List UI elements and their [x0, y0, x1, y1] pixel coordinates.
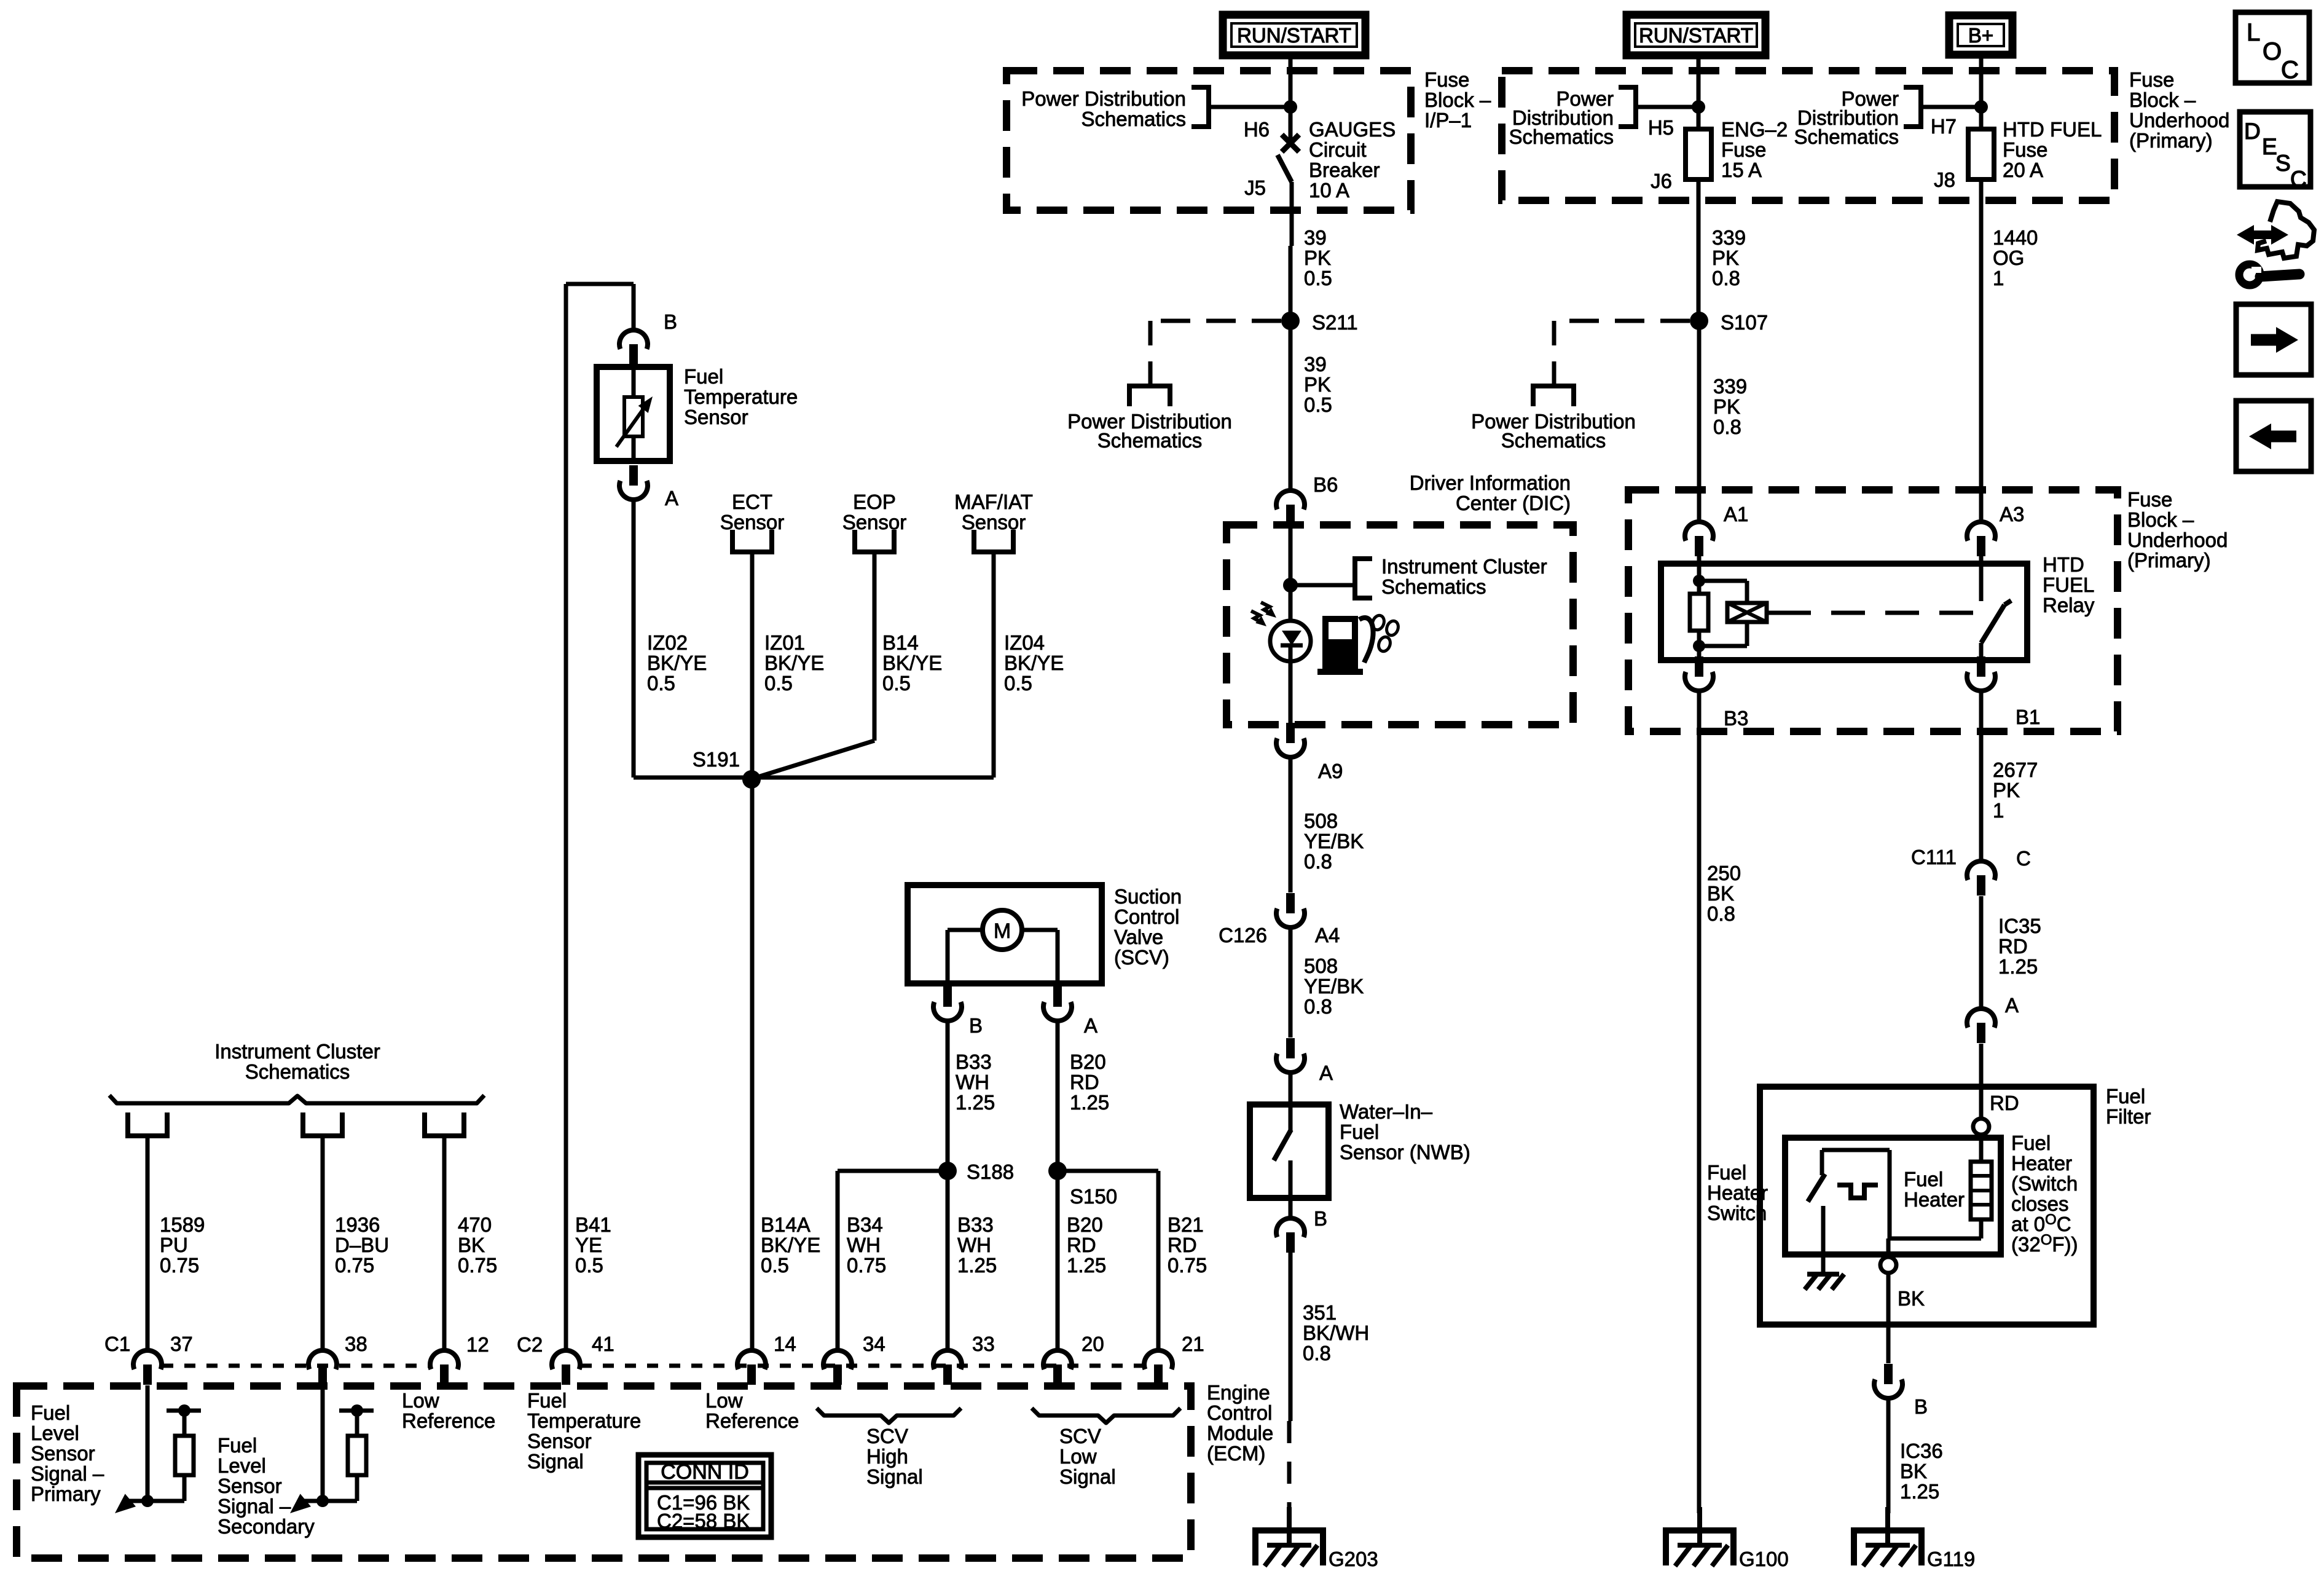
- svg-text:0.8: 0.8: [1712, 267, 1740, 289]
- svg-text:I/P–1: I/P–1: [1424, 109, 1472, 132]
- svg-text:PK: PK: [1304, 246, 1331, 269]
- svg-text:Schematics: Schematics: [1097, 429, 1203, 452]
- svg-text:37: 37: [170, 1333, 193, 1355]
- svg-text:Signal –: Signal –: [31, 1462, 104, 1485]
- svg-text:H5: H5: [1648, 116, 1674, 139]
- svg-text:IC36: IC36: [1900, 1439, 1943, 1462]
- svg-text:ENG–2: ENG–2: [1721, 118, 1788, 141]
- svg-text:B20: B20: [1067, 1213, 1103, 1236]
- svg-text:BK: BK: [1707, 882, 1734, 905]
- svg-text:Level: Level: [31, 1422, 79, 1444]
- svg-text:508: 508: [1304, 955, 1338, 977]
- svg-text:470: 470: [458, 1213, 492, 1236]
- svg-text:(Switch: (Switch: [2011, 1172, 2078, 1195]
- svg-text:O: O: [2263, 38, 2282, 65]
- svg-text:0.8: 0.8: [1713, 415, 1741, 438]
- svg-text:0.5: 0.5: [882, 672, 911, 695]
- svg-text:HTD FUEL: HTD FUEL: [2003, 118, 2102, 141]
- svg-text:Fuel: Fuel: [218, 1434, 257, 1457]
- svg-text:B14A: B14A: [761, 1213, 811, 1236]
- svg-text:Fuel: Fuel: [1904, 1168, 1943, 1191]
- svg-text:Instrument Cluster: Instrument Cluster: [1381, 555, 1547, 578]
- svg-text:RD: RD: [1168, 1234, 1197, 1256]
- svg-text:41: 41: [592, 1333, 614, 1355]
- svg-text:G203: G203: [1329, 1548, 1378, 1570]
- svg-text:Fuel: Fuel: [684, 365, 723, 388]
- svg-text:Block –: Block –: [1424, 89, 1491, 111]
- svg-text:BK: BK: [1898, 1287, 1925, 1310]
- svg-text:339: 339: [1713, 375, 1747, 398]
- svg-text:Filter: Filter: [2106, 1105, 2151, 1128]
- svg-text:WH: WH: [957, 1234, 991, 1256]
- svg-text:Switch: Switch: [1707, 1202, 1767, 1224]
- svg-text:0.5: 0.5: [761, 1254, 789, 1277]
- svg-text:C: C: [2290, 167, 2307, 192]
- svg-text:MAF/IAT: MAF/IAT: [954, 490, 1033, 513]
- svg-text:2677: 2677: [1993, 758, 2038, 781]
- svg-text:0.75: 0.75: [847, 1254, 886, 1277]
- svg-text:Fuse: Fuse: [2127, 488, 2172, 511]
- svg-text:1.25: 1.25: [1900, 1480, 1939, 1503]
- svg-text:B+: B+: [1968, 24, 1993, 47]
- svg-text:IZ04: IZ04: [1004, 631, 1045, 654]
- svg-text:Fuel: Fuel: [2106, 1085, 2145, 1108]
- svg-text:Fuse: Fuse: [2003, 138, 2047, 161]
- svg-text:38: 38: [345, 1333, 367, 1355]
- svg-text:20 A: 20 A: [2003, 159, 2043, 181]
- svg-text:IC35: IC35: [1998, 915, 2041, 937]
- svg-text:B33: B33: [957, 1213, 994, 1236]
- svg-text:1.25: 1.25: [1070, 1091, 1109, 1114]
- svg-text:G100: G100: [1739, 1548, 1789, 1570]
- svg-text:339: 339: [1712, 226, 1746, 249]
- svg-text:10 A: 10 A: [1309, 179, 1349, 202]
- svg-text:YE/BK: YE/BK: [1304, 830, 1364, 853]
- svg-text:YE: YE: [575, 1234, 602, 1256]
- svg-text:Schematics: Schematics: [1081, 108, 1186, 130]
- svg-text:(ECM): (ECM): [1207, 1442, 1265, 1465]
- svg-text:BK: BK: [458, 1234, 485, 1256]
- svg-text:0.5: 0.5: [1304, 393, 1332, 416]
- svg-text:0.8: 0.8: [1303, 1342, 1331, 1364]
- svg-text:A: A: [1084, 1014, 1097, 1037]
- svg-text:Fuel: Fuel: [527, 1389, 567, 1412]
- svg-text:Fuel: Fuel: [1340, 1120, 1379, 1143]
- svg-text:0.5: 0.5: [764, 672, 793, 695]
- svg-text:RD: RD: [1998, 935, 2028, 958]
- svg-text:Driver Information: Driver Information: [1410, 471, 1571, 494]
- svg-text:J6: J6: [1651, 170, 1672, 192]
- svg-text:0.8: 0.8: [1707, 902, 1735, 925]
- svg-text:SCV: SCV: [866, 1425, 908, 1447]
- svg-text:250: 250: [1707, 862, 1741, 884]
- svg-text:WH: WH: [847, 1234, 881, 1256]
- svg-text:Circuit: Circuit: [1309, 138, 1367, 161]
- svg-text:Level: Level: [218, 1454, 266, 1477]
- svg-text:High: High: [866, 1445, 908, 1468]
- svg-text:Valve: Valve: [1114, 926, 1163, 948]
- svg-text:1589: 1589: [160, 1213, 205, 1236]
- svg-text:Breaker: Breaker: [1309, 159, 1380, 181]
- svg-text:0.75: 0.75: [1168, 1254, 1207, 1277]
- svg-text:39: 39: [1304, 226, 1327, 249]
- svg-text:GAUGES: GAUGES: [1309, 118, 1396, 141]
- svg-text:Fuse: Fuse: [2129, 68, 2174, 91]
- svg-text:RD: RD: [1070, 1071, 1099, 1093]
- svg-text:H6: H6: [1244, 118, 1270, 141]
- svg-text:B41: B41: [575, 1213, 611, 1236]
- svg-text:Engine: Engine: [1207, 1381, 1270, 1404]
- svg-text:S188: S188: [967, 1160, 1014, 1183]
- svg-text:S107: S107: [1721, 311, 1768, 334]
- svg-text:Sensor: Sensor: [684, 406, 748, 428]
- svg-text:B14: B14: [882, 631, 919, 654]
- svg-text:IZ01: IZ01: [764, 631, 805, 654]
- svg-text:D: D: [2244, 119, 2261, 144]
- svg-text:RUN/START: RUN/START: [1639, 24, 1753, 47]
- svg-text:Reference: Reference: [705, 1409, 799, 1432]
- svg-text:Sensor: Sensor: [720, 511, 785, 534]
- svg-text:0.5: 0.5: [1004, 672, 1032, 695]
- svg-text:Schematics: Schematics: [1509, 125, 1614, 148]
- svg-text:Reference: Reference: [402, 1409, 495, 1432]
- svg-text:15 A: 15 A: [1721, 159, 1762, 181]
- svg-text:Fuel: Fuel: [31, 1401, 70, 1424]
- svg-text:Relay: Relay: [2043, 594, 2095, 616]
- svg-text:FUEL: FUEL: [2043, 573, 2094, 596]
- svg-text:Sensor: Sensor: [218, 1475, 282, 1497]
- svg-text:1: 1: [1993, 267, 2004, 289]
- svg-text:0.5: 0.5: [575, 1254, 603, 1277]
- svg-text:12: 12: [466, 1333, 489, 1356]
- svg-text:B1: B1: [2016, 706, 2040, 728]
- svg-text:PK: PK: [1713, 395, 1740, 418]
- svg-text:0.8: 0.8: [1304, 850, 1332, 873]
- svg-text:1936: 1936: [335, 1213, 380, 1236]
- svg-text:0.75: 0.75: [458, 1254, 497, 1277]
- svg-text:Instrument Cluster: Instrument Cluster: [214, 1040, 380, 1063]
- svg-text:Signal: Signal: [866, 1465, 923, 1488]
- svg-text:RUN/START: RUN/START: [1237, 24, 1351, 47]
- svg-text:Power Distribution: Power Distribution: [1021, 87, 1186, 110]
- svg-text:BK/YE: BK/YE: [1004, 652, 1064, 674]
- svg-text:Block –: Block –: [2129, 89, 2196, 111]
- svg-text:BK/WH: BK/WH: [1303, 1321, 1369, 1344]
- svg-text:B: B: [1314, 1207, 1327, 1230]
- svg-text:closes: closes: [2011, 1192, 2069, 1215]
- svg-text:Secondary: Secondary: [218, 1515, 315, 1538]
- svg-text:33: 33: [972, 1333, 995, 1355]
- svg-text:Sensor (NWB): Sensor (NWB): [1340, 1141, 1470, 1164]
- svg-text:S150: S150: [1070, 1185, 1117, 1208]
- svg-text:Sensor: Sensor: [962, 511, 1026, 534]
- svg-text:C1: C1: [104, 1333, 130, 1355]
- svg-text:Center (DIC): Center (DIC): [1456, 492, 1571, 514]
- svg-text:WH: WH: [956, 1071, 989, 1093]
- svg-text:EOP: EOP: [853, 490, 896, 513]
- svg-text:351: 351: [1303, 1301, 1337, 1324]
- svg-text:Schematics: Schematics: [1794, 125, 1899, 148]
- svg-text:SCV: SCV: [1059, 1425, 1101, 1447]
- svg-text:G119: G119: [1927, 1548, 1975, 1570]
- svg-text:HTD: HTD: [2043, 553, 2084, 576]
- svg-text:Heater: Heater: [2011, 1152, 2072, 1175]
- svg-text:C: C: [2016, 847, 2031, 870]
- svg-text:Underhood: Underhood: [2127, 529, 2228, 551]
- svg-text:B33: B33: [956, 1050, 992, 1073]
- svg-text:S: S: [2275, 151, 2291, 176]
- svg-text:Sensor: Sensor: [31, 1442, 95, 1465]
- svg-text:B: B: [1914, 1395, 1928, 1418]
- svg-text:D–BU: D–BU: [335, 1234, 389, 1256]
- svg-text:BK/YE: BK/YE: [761, 1234, 820, 1256]
- svg-text:B20: B20: [1070, 1050, 1106, 1073]
- svg-text:B6: B6: [1313, 473, 1338, 496]
- svg-text:20: 20: [1082, 1333, 1104, 1355]
- svg-text:1.25: 1.25: [956, 1091, 995, 1114]
- svg-text:Suction: Suction: [1114, 885, 1182, 908]
- svg-text:C126: C126: [1219, 924, 1267, 947]
- svg-text:B3: B3: [1724, 707, 1748, 730]
- svg-text:BK/YE: BK/YE: [882, 652, 942, 674]
- svg-text:34: 34: [863, 1333, 885, 1355]
- svg-text:Schematics: Schematics: [1381, 575, 1486, 598]
- svg-text:Underhood: Underhood: [2129, 109, 2229, 132]
- svg-text:Primary: Primary: [31, 1483, 101, 1505]
- svg-text:1.25: 1.25: [1067, 1254, 1106, 1277]
- svg-text:B34: B34: [847, 1213, 883, 1236]
- svg-text:Block –: Block –: [2127, 508, 2194, 531]
- svg-text:1.25: 1.25: [1998, 955, 2038, 978]
- svg-text:C111: C111: [1911, 846, 1957, 868]
- svg-text:BK/YE: BK/YE: [647, 652, 707, 674]
- svg-text:M: M: [994, 919, 1011, 943]
- svg-text:39: 39: [1304, 353, 1327, 376]
- svg-text:(Primary): (Primary): [2129, 129, 2213, 152]
- svg-text:Heater: Heater: [1707, 1181, 1768, 1204]
- svg-text:0.5: 0.5: [647, 672, 675, 695]
- svg-text:Fuse: Fuse: [1424, 68, 1469, 91]
- svg-text:BK/YE: BK/YE: [764, 652, 824, 674]
- svg-text:Control: Control: [1114, 905, 1179, 928]
- svg-text:J5: J5: [1244, 176, 1266, 199]
- svg-text:508: 508: [1304, 809, 1338, 832]
- svg-text:Heater: Heater: [1904, 1188, 1965, 1211]
- svg-text:CONN ID: CONN ID: [661, 1460, 749, 1484]
- svg-text:Module: Module: [1207, 1422, 1273, 1444]
- svg-text:ECT: ECT: [732, 490, 772, 513]
- svg-text:Schematics: Schematics: [1501, 429, 1606, 452]
- svg-text:1440: 1440: [1993, 226, 2038, 249]
- svg-text:0.75: 0.75: [160, 1254, 199, 1277]
- svg-text:BK: BK: [1900, 1460, 1927, 1483]
- svg-text:Low: Low: [705, 1389, 743, 1412]
- svg-text:Fuse: Fuse: [1721, 138, 1766, 161]
- svg-text:Low: Low: [402, 1389, 439, 1412]
- svg-text:B: B: [969, 1014, 983, 1037]
- svg-text:J8: J8: [1934, 168, 1955, 191]
- svg-text:Schematics: Schematics: [245, 1060, 350, 1083]
- svg-text:14: 14: [774, 1333, 796, 1355]
- svg-text:OG: OG: [1993, 246, 2024, 269]
- svg-text:0.5: 0.5: [1304, 267, 1332, 289]
- svg-text:Fuel: Fuel: [1707, 1161, 1746, 1184]
- svg-text:B21: B21: [1168, 1213, 1204, 1236]
- svg-text:PK: PK: [1993, 779, 2020, 801]
- svg-text:C2=58 BK: C2=58 BK: [657, 1510, 750, 1532]
- svg-text:IZ02: IZ02: [647, 631, 688, 654]
- svg-text:S211: S211: [1312, 311, 1358, 334]
- svg-text:E: E: [2262, 134, 2277, 159]
- svg-text:RD: RD: [1067, 1234, 1096, 1256]
- svg-text:A: A: [665, 487, 678, 510]
- svg-text:PU: PU: [160, 1234, 188, 1256]
- svg-text:A4: A4: [1315, 924, 1340, 947]
- svg-text:1.25: 1.25: [957, 1254, 997, 1277]
- svg-text:A: A: [1319, 1061, 1333, 1084]
- svg-text:H7: H7: [1931, 115, 1957, 138]
- svg-text:PK: PK: [1712, 246, 1739, 269]
- svg-text:Sensor: Sensor: [527, 1430, 592, 1452]
- svg-text:Fuel: Fuel: [2011, 1132, 2051, 1154]
- svg-text:0.75: 0.75: [335, 1254, 374, 1277]
- svg-text:YE/BK: YE/BK: [1304, 975, 1364, 998]
- svg-text:B: B: [664, 310, 677, 333]
- svg-text:Signal –: Signal –: [218, 1495, 291, 1518]
- svg-text:C: C: [2281, 57, 2299, 84]
- svg-text:Temperature: Temperature: [684, 385, 798, 408]
- svg-text:S191: S191: [693, 748, 740, 771]
- svg-text:RD: RD: [1990, 1092, 2019, 1114]
- svg-text:A: A: [2005, 994, 2019, 1017]
- svg-text:Signal: Signal: [1059, 1465, 1116, 1488]
- svg-text:21: 21: [1182, 1333, 1204, 1355]
- svg-text:Low: Low: [1059, 1445, 1097, 1468]
- svg-text:0.8: 0.8: [1304, 995, 1332, 1018]
- svg-text:(SCV): (SCV): [1114, 946, 1169, 969]
- svg-text:A1: A1: [1724, 503, 1748, 526]
- svg-text:Temperature: Temperature: [527, 1409, 641, 1432]
- svg-text:1: 1: [1993, 799, 2004, 822]
- svg-text:Signal: Signal: [527, 1450, 584, 1473]
- svg-text:(Primary): (Primary): [2127, 549, 2211, 572]
- svg-text:L: L: [2247, 19, 2260, 46]
- svg-text:C2: C2: [517, 1333, 543, 1356]
- svg-text:A3: A3: [2000, 503, 2024, 526]
- svg-text:Sensor: Sensor: [842, 511, 907, 534]
- svg-text:PK: PK: [1304, 373, 1331, 396]
- svg-text:Water–In–: Water–In–: [1340, 1100, 1433, 1123]
- svg-text:Control: Control: [1207, 1401, 1272, 1424]
- svg-text:A9: A9: [1318, 760, 1343, 782]
